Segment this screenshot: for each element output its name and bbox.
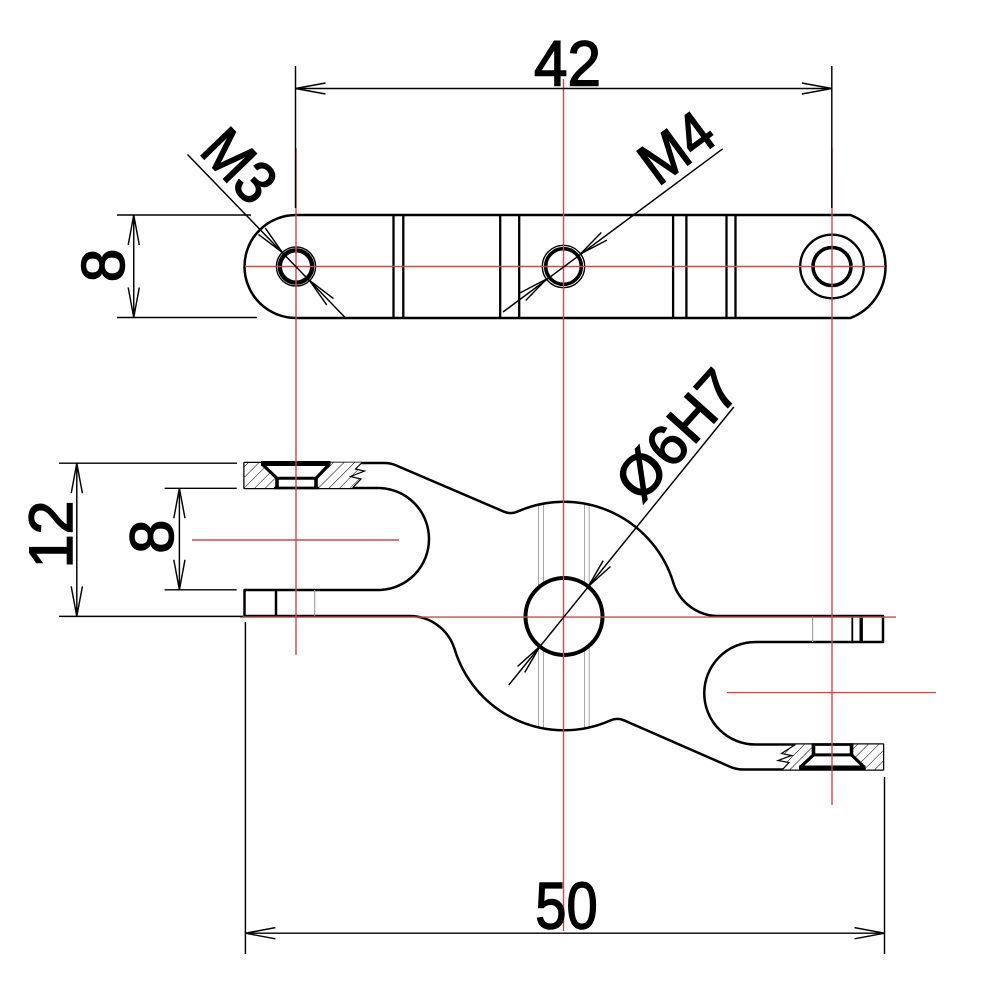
extension line top [117,214,251,216]
M3 tapped hole side view [280,250,312,282]
center line vertical M4 / Ø6 axis [563,79,565,931]
dimension line 8 slot [178,488,180,590]
bottom view outline [245,463,884,770]
arrowheads 12 [71,463,82,493]
center line horizontal right slot axis [727,692,936,694]
leader line M4 [503,149,723,312]
arrowheads M4 [580,233,607,255]
hidden hole edge lines right fork upper arm [812,616,814,642]
side view groove lines [394,215,736,318]
M4 tapped hole side view [546,249,582,285]
extension line left [295,66,297,208]
extension line top [165,487,237,489]
extension line bottom [59,615,243,617]
svg-text:8: 8 [118,520,186,554]
hatched broken-out section lower-right arm [778,744,883,770]
arrowheads M3 [259,228,283,253]
dimension line 8 [133,215,135,318]
dimension line 50 [245,932,884,934]
arrowheads 42 [296,83,326,94]
Ø6H7 hole (white fill over tangent lines) [526,578,603,655]
svg-text:42: 42 [534,29,601,100]
svg-text:8: 8 [70,249,137,282]
right countersunk hole side view [813,248,851,286]
svg-text:50: 50 [535,869,597,942]
dimension line 12 [76,463,78,616]
center line horizontal side view axis [245,266,885,268]
countersink section lower-right (M3) [799,745,866,769]
zigzag break line lower-right [778,745,796,770]
hidden hole edge lines left fork lower arm [275,590,278,616]
center line horizontal left slot axis [192,539,399,541]
arrowheads Ø6H7 [588,561,610,587]
extension line top [59,462,237,464]
countersink section upper-left (M3) [261,464,331,489]
leader line Ø6H7 [509,407,734,685]
extension line right [884,777,886,954]
hatched broken-out section upper-left arm [245,463,365,489]
arrowheads 50 [245,928,275,939]
leader line M3 [188,155,347,319]
extension line bottom [117,317,257,319]
extension line bottom [165,589,237,591]
extension line right [831,66,833,208]
side view outline [245,215,886,318]
faint tangent lines through boss [539,504,590,729]
dimension line 42 [296,88,832,90]
center line vertical right hole axis [831,148,833,805]
arrowheads 8 slot [174,488,185,518]
extension line left [244,622,246,954]
svg-text:12: 12 [17,501,85,569]
arrowheads 8 [128,215,139,245]
center line horizontal main axis bottom view [240,616,896,618]
zigzag break line upper-left [351,463,365,489]
center line vertical M3 axis [295,148,297,655]
